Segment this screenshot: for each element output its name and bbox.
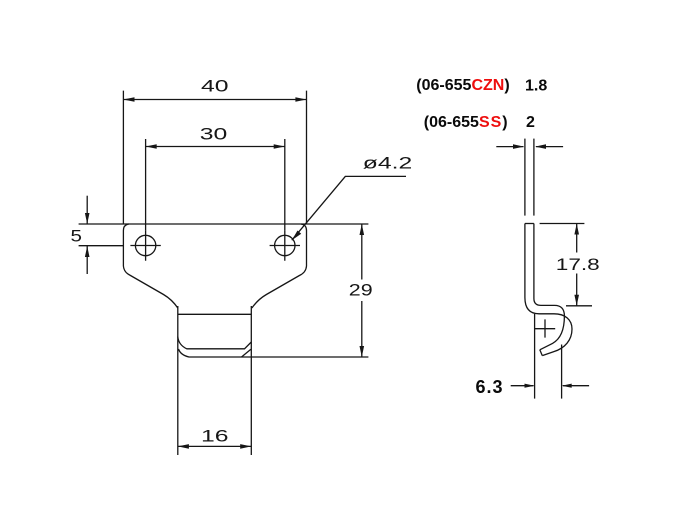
plate outline left side	[123, 224, 177, 308]
side view: upper strip right line	[533, 139, 535, 216]
plate outline right side	[252, 224, 307, 308]
dim 6.3 right line	[563, 385, 589, 387]
dim 40 line	[123, 99, 306, 101]
side view: upper strip left line	[524, 139, 526, 216]
dim 29 line lower segment	[361, 301, 363, 357]
dim 29 line upper segment	[361, 224, 363, 280]
svg-text:2: 2	[526, 114, 535, 131]
hole right circle	[275, 235, 295, 255]
thickness dim arrow left	[513, 144, 524, 149]
svg-text:40: 40	[201, 77, 229, 95]
side view hook outer surface	[525, 298, 572, 356]
dim 17.8 bottom extension line	[566, 305, 592, 307]
side view: lower strip left line	[524, 224, 526, 298]
dim 30 arrow right	[274, 144, 285, 149]
svg-text:(06-655CZN): (06-655CZN)	[416, 77, 509, 94]
dim 29 arrow bottom	[360, 346, 365, 357]
thickness dim right line	[536, 146, 563, 148]
dim 5 lower leader	[86, 246, 88, 274]
dim 17.8 line lower segment	[576, 274, 578, 306]
dim 5 upper leader	[86, 196, 88, 224]
hook bottom edge (front view, extended right for 29-dim)	[179, 349, 369, 357]
dim 29 arrow top	[360, 224, 365, 235]
dim 30 extension line left (down to hole)	[145, 139, 147, 230]
dim 6.3 extension line left	[534, 314, 536, 399]
dim 30 arrow left	[146, 144, 157, 149]
dim 40 arrow left	[123, 97, 134, 102]
hole right crosshair	[270, 230, 300, 260]
dim 16 line	[178, 445, 252, 447]
side view: lower strip cap	[525, 223, 534, 225]
dim 17.8 arrow bottom	[574, 295, 579, 306]
hole left crosshair	[130, 230, 160, 260]
dim 40 extension line right	[306, 91, 308, 224]
svg-text:(06-655SS): (06-655SS)	[424, 114, 508, 131]
hole left circle	[135, 235, 155, 255]
stem bend line	[178, 313, 252, 315]
svg-text:29: 29	[349, 282, 373, 300]
dim 16 arrow left	[178, 444, 189, 449]
dim 6.3 arrow right	[562, 384, 572, 388]
svg-text:6.3: 6.3	[476, 377, 504, 397]
dim 40 extension line left	[122, 91, 124, 224]
dim 17.8 top extension line	[540, 223, 585, 225]
stem left edge + 16-dim extension line	[177, 306, 179, 455]
hook bottom right diagonal	[242, 349, 251, 357]
svg-text:ø4.2: ø4.2	[363, 154, 412, 172]
svg-text:1.8: 1.8	[525, 78, 547, 95]
side view hook inner surface	[534, 299, 565, 350]
thickness dim arrow right	[535, 144, 546, 149]
dim 40 arrow right	[295, 97, 306, 102]
side view hook tip cap	[540, 350, 543, 356]
svg-text:17.8: 17.8	[556, 256, 600, 274]
side view hook centre mark	[535, 319, 555, 337]
hook upper band (front view)	[178, 337, 252, 349]
dim 17.8 line upper segment	[576, 224, 578, 253]
svg-text:30: 30	[200, 125, 228, 143]
dim 5 arrow top	[85, 213, 90, 224]
plate top edge line (extended left for 5-dim and right for 29-dim)	[79, 223, 369, 225]
svg-text:5: 5	[71, 226, 82, 245]
thickness dim left line	[496, 146, 523, 148]
dim 6.3 left line	[511, 385, 534, 387]
dia 4.2 leader arrow	[292, 231, 301, 241]
dim 30 line	[146, 146, 285, 148]
side view: lower strip right line	[533, 224, 535, 299]
dia 4.2 leader line	[292, 176, 406, 240]
dim 16 arrow right	[240, 444, 251, 449]
dim 6.3 extension line right	[561, 345, 563, 399]
dim 5 hole-centre extension line	[79, 245, 124, 247]
dim 17.8 arrow top	[574, 224, 579, 235]
stem right edge + 16-dim extension line	[250, 306, 252, 455]
dim 6.3 arrow left	[525, 384, 535, 388]
svg-text:16: 16	[201, 427, 229, 445]
dim 5 arrow bottom	[85, 246, 90, 257]
dim 30 extension line right (down to hole)	[284, 139, 286, 230]
